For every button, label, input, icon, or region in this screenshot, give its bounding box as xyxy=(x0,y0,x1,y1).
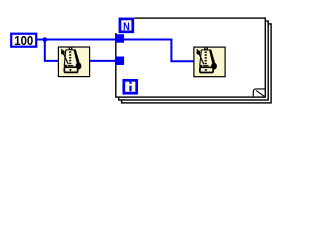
numeric constant 100 xyxy=(11,34,36,47)
wire junction dot xyxy=(42,37,47,42)
for-loop stacked frame 3 (back) xyxy=(122,24,272,103)
for-loop frame 1 (front) xyxy=(116,18,265,97)
page-fold at bottom-right corner of loop frame xyxy=(253,89,265,97)
wire: constant to tunnel 1 xyxy=(37,39,116,41)
i iteration terminal xyxy=(124,80,137,93)
svg-text:100: 100 xyxy=(14,33,33,48)
outer wait (ms) icon xyxy=(58,47,89,77)
wire: outer wait icon output to tunnel 2 xyxy=(89,60,116,62)
inner wait (ms) icon xyxy=(194,47,225,77)
N count terminal xyxy=(120,19,133,32)
white patch hiding loop corner behind N terminal xyxy=(110,10,134,33)
wire: tunnel 1 to inner wait icon xyxy=(124,40,196,62)
wire: junction down to outer wait icon input xyxy=(45,40,60,61)
tunnel 2 on loop border xyxy=(116,57,125,66)
tunnel 1 on loop border xyxy=(116,34,125,43)
for-loop stacked frame 2 (middle) xyxy=(119,21,269,100)
svg-text:N: N xyxy=(123,21,130,33)
